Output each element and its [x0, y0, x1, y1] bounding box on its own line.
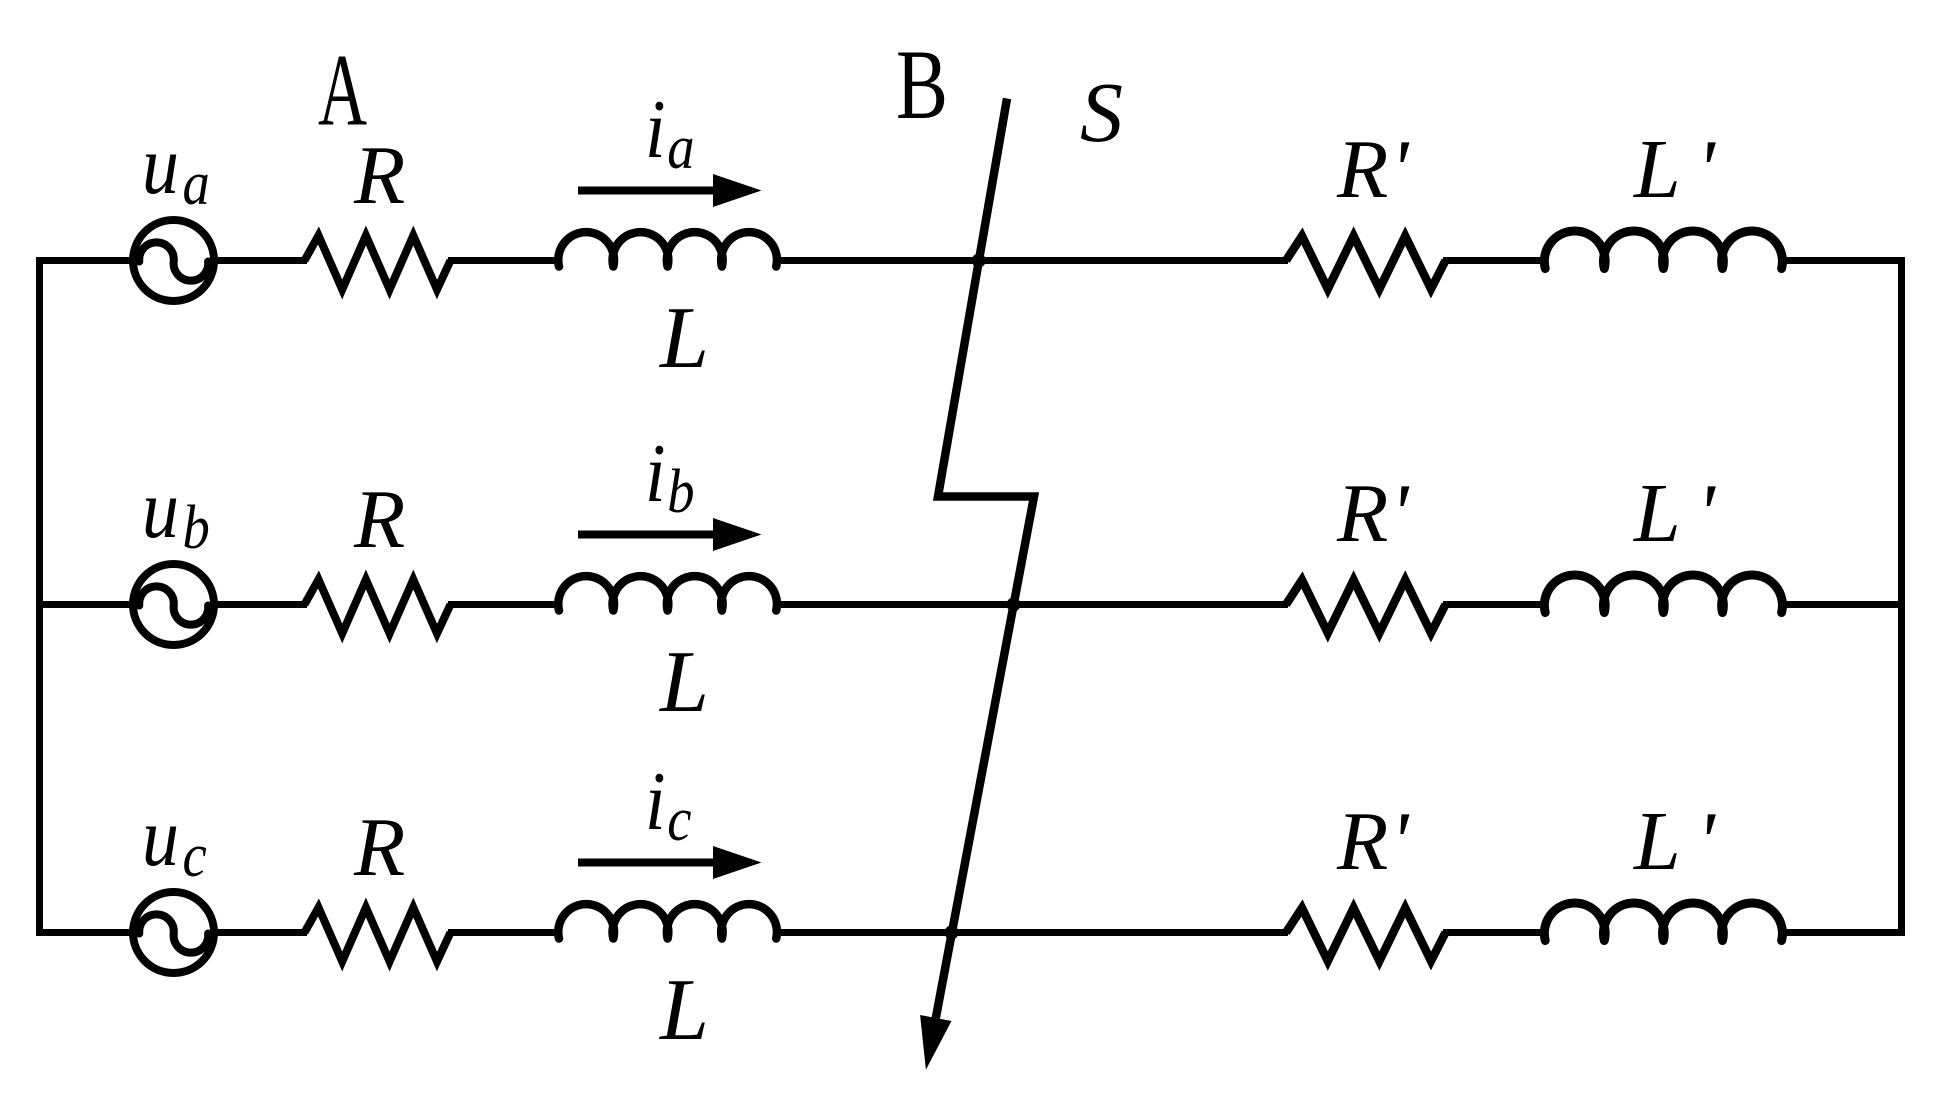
label ua [142, 119, 210, 218]
label ia [645, 83, 695, 182]
svg-text:L: L [658, 962, 709, 1059]
AC source ub circle [133, 564, 214, 645]
AC source ua sine symbol [139, 242, 208, 280]
inductor L (phase c) [558, 904, 777, 938]
AC source ub sine symbol [139, 586, 208, 624]
resistor R (phase b) [305, 580, 451, 634]
wire: inductor L' to right bus [1781, 601, 1905, 608]
wire left bus [36, 258, 43, 936]
inductor L' (phase c) [1544, 903, 1782, 941]
fault bolt arrowhead [920, 1015, 951, 1070]
label ub [142, 463, 210, 562]
wire: resistor R to inductor L [448, 257, 560, 264]
wire: resistor R' to inductor L' [1443, 601, 1548, 608]
inductor L' (phase a) [1544, 231, 1782, 269]
wire: left bus to source ub [36, 601, 136, 608]
wire: inductor L to resistor R' (crossed by fault) [777, 601, 1288, 608]
label ic [645, 755, 692, 854]
svg-text:ic: ic [645, 755, 692, 854]
wire: inductor L to resistor R' (crossed by fault) [777, 929, 1288, 936]
resistor R' (phase b) [1286, 580, 1446, 633]
svg-text:uc: uc [142, 791, 207, 890]
svg-text:ub: ub [142, 463, 210, 562]
wire: inductor L' to right bus [1781, 929, 1905, 936]
wire: resistor R' to inductor L' [1443, 257, 1548, 264]
svg-text:L': L' [1633, 123, 1717, 216]
svg-text:L': L' [1633, 467, 1717, 560]
svg-text:R': R' [1336, 467, 1410, 560]
inductor L (phase b) [558, 576, 777, 610]
svg-text:L': L' [1633, 795, 1717, 888]
junction dot row a / fault [972, 254, 986, 268]
node row a: phase line [36, 174, 1905, 301]
wire: resistor R to inductor L [448, 929, 560, 936]
current arrow ib [578, 518, 762, 551]
wire: inductor L' to right bus [1781, 257, 1905, 264]
resistor R (phase c) [305, 908, 451, 962]
svg-text:ua: ua [142, 119, 210, 218]
wire: source ua to resistor R [214, 257, 307, 264]
wire: resistor R' to inductor L' [1443, 929, 1548, 936]
svg-text:L: L [658, 290, 709, 387]
node row c: phase line [36, 846, 1905, 973]
current arrow ic [578, 846, 762, 879]
fault bolt line (S) [936, 99, 1034, 1019]
wire: left bus to source uc [36, 929, 136, 936]
label uc [142, 791, 207, 890]
svg-text:S: S [1080, 64, 1123, 160]
wire: inductor L to resistor R' (crossed by fault) [777, 257, 1288, 264]
svg-text:ib: ib [645, 427, 695, 526]
AC source uc sine symbol [139, 914, 208, 952]
resistor R' (phase a) [1286, 236, 1446, 289]
wire: resistor R to inductor L [448, 601, 560, 608]
svg-text:R: R [353, 473, 405, 566]
svg-text:R: R [353, 801, 405, 894]
svg-text:L: L [658, 634, 709, 731]
svg-text:R': R' [1336, 123, 1410, 216]
AC source uc circle [133, 892, 214, 973]
node row b: phase line [36, 518, 1905, 645]
label ib [645, 427, 695, 526]
wire: left bus to source ua [36, 257, 136, 264]
svg-text:R': R' [1336, 795, 1410, 888]
svg-text:ia: ia [645, 83, 695, 182]
AC source ua circle [133, 220, 214, 301]
resistor R' (phase c) [1286, 908, 1446, 961]
resistor R (phase a) [305, 236, 451, 290]
current arrow ia [578, 174, 762, 207]
wire right bus [1898, 258, 1905, 936]
wire: source uc to resistor R [214, 929, 307, 936]
junction dot row b / fault [1007, 598, 1021, 612]
inductor L (phase a) [558, 232, 777, 266]
junction dot row c / fault [945, 926, 959, 940]
inductor L' (phase b) [1544, 575, 1782, 613]
svg-text:R: R [353, 129, 405, 222]
wire: source ub to resistor R [214, 601, 307, 608]
svg-text:B: B [896, 30, 948, 140]
